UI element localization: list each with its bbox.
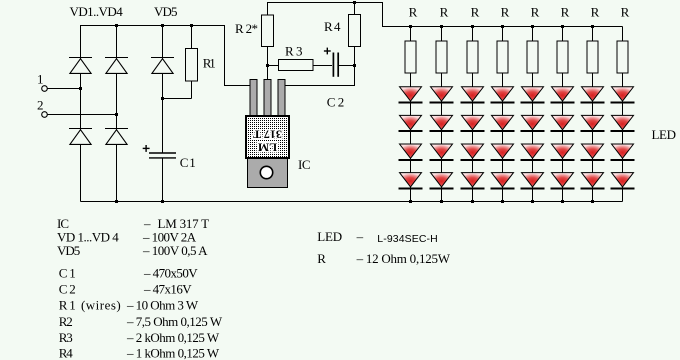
svg-text:R2: R2 [59,314,73,329]
svg-text:IC: IC [298,157,311,172]
svg-text:VD5: VD5 [154,4,178,19]
svg-text:LM: LM [258,141,277,155]
svg-text:C 2: C 2 [327,95,345,110]
svg-text:2: 2 [37,98,44,113]
svg-text:R: R [471,5,480,20]
svg-text:– 100V 0,5 A: – 100V 0,5 A [142,243,208,258]
svg-text:– 12 Ohm 0,125W: – 12 Ohm 0,125W [356,251,451,266]
svg-text:–: – [356,229,364,244]
svg-text:R: R [440,5,449,20]
svg-text:R: R [531,5,540,20]
svg-text:– 47x16V: – 47x16V [143,282,192,297]
svg-text:R 2*: R 2* [235,21,258,36]
svg-text:C 1: C 1 [59,266,76,281]
svg-text:LED: LED [317,229,342,244]
svg-text:R: R [621,5,630,20]
svg-text:R: R [561,5,570,20]
svg-text:VD1..VD4: VD1..VD4 [70,4,124,19]
svg-text:C 2: C 2 [59,282,76,297]
svg-text:– 470x50V: – 470x50V [143,266,198,281]
svg-text:1: 1 [37,72,44,87]
svg-text:– 1 kOhm 0,125 W: – 1 kOhm 0,125 W [126,346,220,360]
svg-text:R: R [501,5,510,20]
svg-text:C 1: C 1 [180,155,196,170]
svg-text:R: R [409,5,418,20]
svg-text:R3: R3 [59,330,73,345]
svg-text:VD5: VD5 [57,243,80,258]
svg-text:R4: R4 [59,346,74,360]
svg-text:– 10 Ohm 3 W: – 10 Ohm 3 W [126,298,199,313]
svg-text:R 4: R 4 [324,19,341,34]
svg-text:R 1: R 1 [59,298,76,313]
svg-text:L-934SEC-H: L-934SEC-H [377,233,438,245]
svg-text:R 3: R 3 [285,44,303,59]
svg-text:– 2 kOhm 0,125 W: – 2 kOhm 0,125 W [126,330,220,345]
svg-text:R: R [591,5,600,20]
svg-text:317 T: 317 T [253,128,282,142]
svg-text:R: R [317,251,326,266]
svg-text:LED: LED [652,127,677,142]
svg-text:(wires): (wires) [81,298,121,313]
svg-text:R1: R1 [203,56,216,71]
svg-text:– 7,5 Ohm 0,125 W: – 7,5 Ohm 0,125 W [126,314,223,329]
